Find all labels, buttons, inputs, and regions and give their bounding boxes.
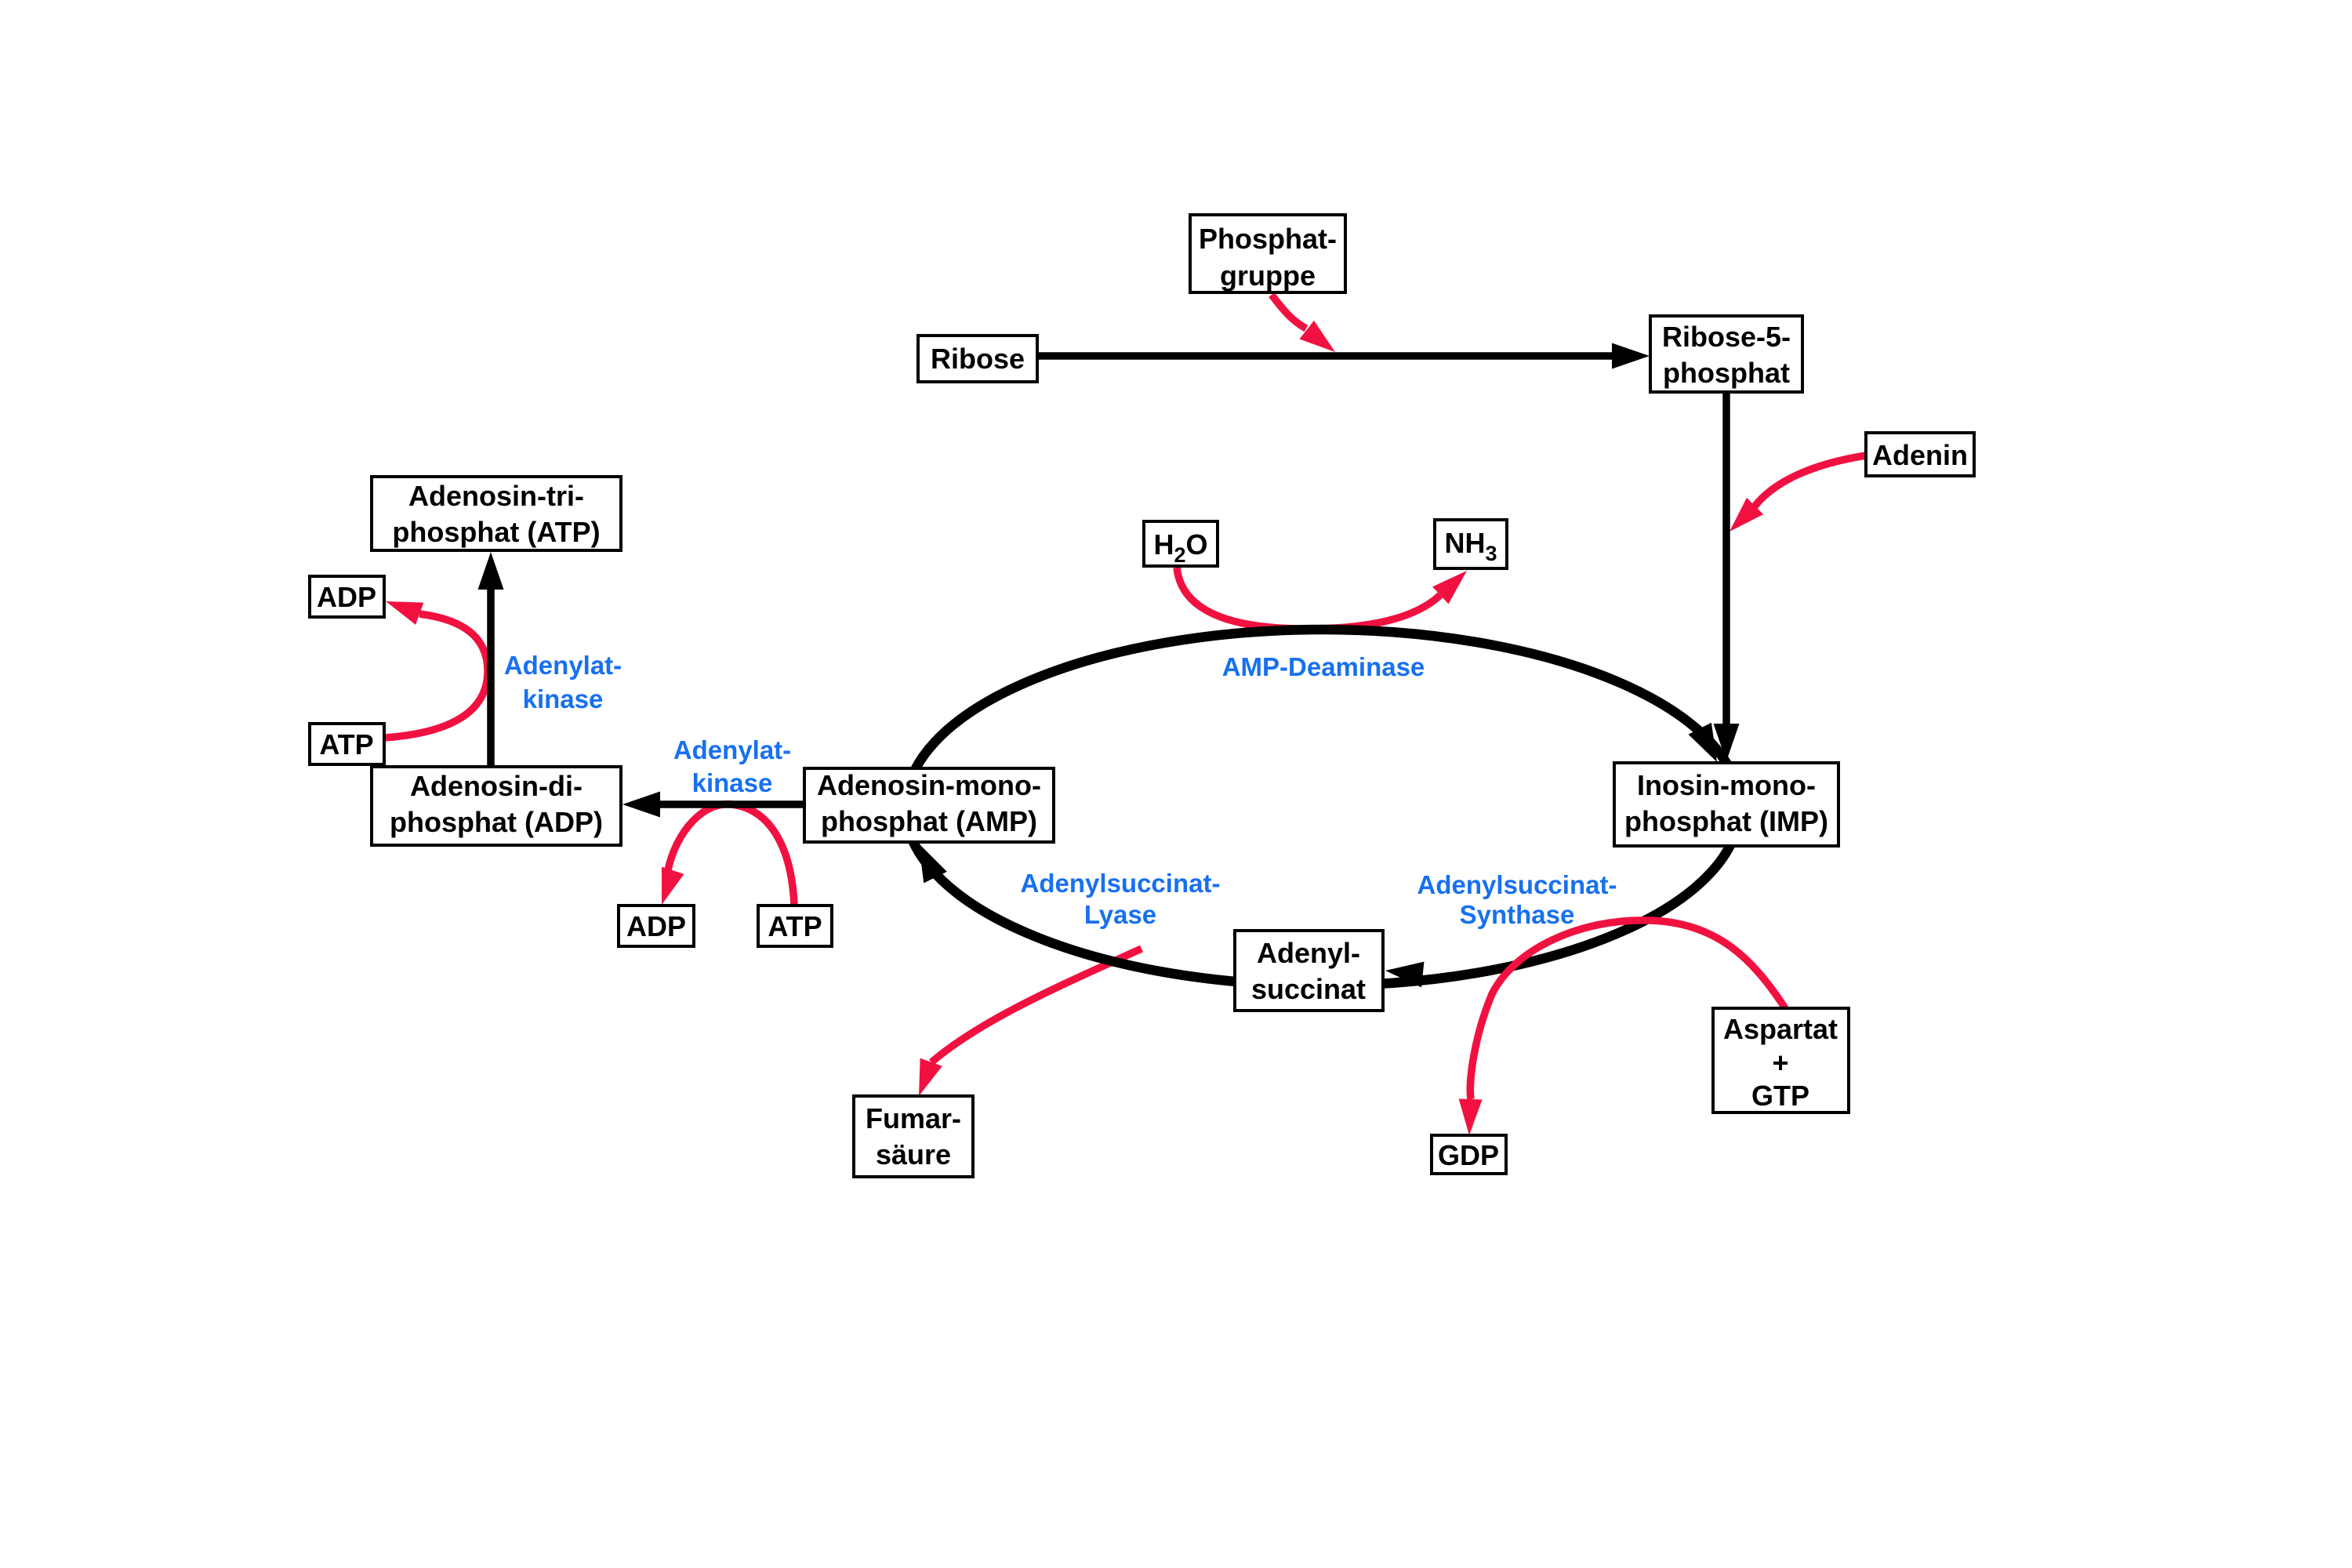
enzyme label Adenylsuccinat-Synthase (1417, 870, 1617, 929)
box ATP lower (758, 906, 832, 946)
box Adenosin-di-phosphat (ADP) (372, 767, 621, 845)
red arrow Aspartat+GTP to GDP (1457, 920, 1785, 1136)
box Ribose-5-phosphat (1650, 316, 1802, 392)
box Phosphatgruppe (1190, 215, 1345, 292)
svg-text:säure: säure (876, 1138, 951, 1171)
red arrow H2O to NH3 over ellipse top (1177, 562, 1475, 629)
svg-text:Adenosin-mono-: Adenosin-mono- (817, 769, 1041, 801)
svg-text:Adenylsuccinat-: Adenylsuccinat- (1021, 869, 1221, 898)
svg-text:phosphat (IMP): phosphat (IMP) (1624, 805, 1828, 837)
svg-text:Adenyl-: Adenyl- (1257, 937, 1360, 969)
svg-text:Adenosin-di-: Adenosin-di- (410, 770, 583, 802)
svg-text:Ribose-5-: Ribose-5- (1662, 321, 1791, 353)
svg-text:Adenylat-: Adenylat- (673, 735, 791, 764)
svg-text:Fumar-: Fumar- (866, 1102, 961, 1134)
svg-text:ATP: ATP (768, 910, 822, 942)
black arrow Ribose to Ribose-5-phosphat (1037, 343, 1650, 369)
red arrow ATP to ADP (left adenylat-kinase) (382, 590, 488, 738)
box Adenin (1866, 433, 1974, 476)
svg-text:Adenylsuccinat-: Adenylsuccinat- (1417, 870, 1617, 899)
svg-text:phosphat (ADP): phosphat (ADP) (390, 806, 603, 838)
svg-text:Aspartat: Aspartat (1723, 1013, 1838, 1045)
box ADP upper left (310, 576, 384, 617)
red arrow Phosphatgruppe to Ribose arrow (1272, 295, 1342, 361)
box Ribose (918, 336, 1037, 382)
svg-text:ADP: ADP (317, 581, 376, 613)
enzyme label Adenylat-kinase lower (673, 735, 791, 797)
svg-text:ATP: ATP (319, 728, 373, 760)
svg-text:GDP: GDP (1438, 1139, 1499, 1171)
red arrow ATP to ADP (lower adenylat-kinase) (651, 804, 794, 909)
svg-text:Adenylat-: Adenylat- (504, 651, 622, 680)
red arrow ellipse to Fumarsaeure (908, 949, 1142, 1100)
box Adenylsuccinat (1235, 931, 1383, 1011)
svg-text:Phosphat-: Phosphat- (1199, 223, 1337, 255)
svg-text:AMP-Deaminase: AMP-Deaminase (1222, 652, 1425, 681)
svg-text:kinase: kinase (692, 768, 773, 797)
box ATP upper left (310, 724, 384, 764)
svg-text:phosphat: phosphat (1663, 357, 1790, 389)
box NH3 (1435, 520, 1507, 568)
box Inosin-mono-phosphat (IMP) (1614, 763, 1838, 846)
cycle ellipse (906, 630, 1740, 985)
red arrow Adenin to vertical line (1721, 456, 1866, 540)
svg-text:ADP: ADP (626, 910, 686, 942)
svg-text:Adenin: Adenin (1872, 439, 1968, 471)
box Adenosin-tri-phosphat (ATP) (372, 477, 621, 550)
svg-text:Synthase: Synthase (1460, 900, 1575, 929)
svg-text:GTP: GTP (1751, 1080, 1809, 1112)
svg-text:gruppe: gruppe (1220, 260, 1316, 292)
box Fumarsaeure (854, 1096, 973, 1177)
enzyme label Adenylat-kinase upper left (504, 651, 622, 713)
svg-text:Inosin-mono-: Inosin-mono- (1637, 769, 1816, 801)
svg-text:kinase: kinase (523, 684, 604, 713)
black arrow AMP to ADP (622, 792, 804, 818)
svg-text:Ribose: Ribose (931, 343, 1025, 375)
box Aspartat + GTP (1713, 1008, 1849, 1112)
box GDP (1432, 1135, 1506, 1174)
enzyme label Adenylsuccinat-Lyase (1021, 869, 1221, 929)
svg-text:phosphat (AMP): phosphat (AMP) (821, 805, 1037, 837)
black arrow ADP to ATP (478, 552, 504, 767)
svg-text:succinat: succinat (1251, 973, 1366, 1005)
ellipse arrowhead into Adenylsuccinat (1384, 958, 1424, 988)
svg-text:+: + (1772, 1047, 1788, 1079)
ellipse arrowhead into AMP bottom (907, 838, 947, 884)
svg-text:Lyase: Lyase (1084, 900, 1156, 929)
box Adenosin-mono-phosphat (AMP) (804, 768, 1054, 842)
black arrow Ribose-5-phosphat to IMP (1714, 392, 1740, 761)
box ADP lower (619, 906, 694, 946)
svg-text:Adenosin-tri-: Adenosin-tri- (408, 480, 584, 512)
svg-text:phosphat (ATP): phosphat (ATP) (392, 516, 600, 548)
box H2O (1144, 521, 1218, 567)
ellipse arrowhead into IMP top (1689, 723, 1729, 768)
